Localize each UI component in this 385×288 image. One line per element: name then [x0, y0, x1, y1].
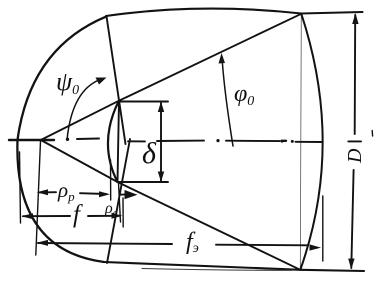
- axis dot 3: [281, 140, 284, 143]
- bottom aperture ray line: [104, 262, 364, 271]
- bottom line ghost stroke: [142, 269, 292, 271]
- feed extension line: [36, 141, 41, 255]
- svg-text:δ: δ: [142, 137, 157, 170]
- vertex extension line: [20, 152, 21, 223]
- f_e right arrowhead: [310, 244, 322, 250]
- f left arrowhead: [22, 213, 34, 219]
- top aperture ray line: [106, 9, 363, 16]
- svg-text:ρc: ρc: [104, 200, 118, 219]
- d dimension top extension: [120, 101, 169, 103]
- ray direction big arrowhead: [121, 194, 129, 196]
- focus extension line: [122, 198, 124, 227]
- d dimension arrow line: [160, 103, 162, 181]
- f right arrowhead: [112, 213, 123, 219]
- phi0 angle arc: [222, 57, 233, 146]
- psi0 angle arc: [67, 79, 102, 140]
- svg-text:fэ: fэ: [186, 229, 199, 256]
- svg-text:ψ0: ψ0: [56, 67, 79, 98]
- f_e dimension line: [38, 243, 172, 244]
- equivalent parabola chord: [300, 14, 301, 270]
- rho_p left arrowhead: [37, 189, 48, 195]
- subreflector chord: [118, 101, 120, 183]
- axis dot 4: [291, 140, 294, 143]
- ray dish top rim to real focus: [107, 16, 126, 144]
- D top arrowhead: [352, 13, 358, 24]
- d dimension bottom extension: [118, 181, 169, 183]
- f_e left arrowhead: [36, 240, 48, 246]
- svg-text:D: D: [344, 148, 366, 164]
- axis dot 2: [216, 139, 219, 142]
- ray dish bottom rim to real focus: [107, 139, 130, 263]
- ray feed to subreflector top edge to equivalent parabola edge: [41, 14, 302, 140]
- f dimension line: [23, 215, 70, 217]
- rho_p right arrowhead: [99, 191, 110, 197]
- psi0 arrowhead: [96, 78, 107, 85]
- rho_p dimension line: [39, 191, 56, 193]
- axis dot 1: [66, 138, 69, 141]
- equivalent parabola vertex extension line: [322, 196, 324, 261]
- subreflector hyperbola arc: [108, 101, 119, 183]
- d arrowhead up: [158, 102, 164, 113]
- d arrowhead down: [158, 172, 164, 183]
- svg-text:f: f: [73, 201, 83, 228]
- subreflector apex extension line: [110, 160, 112, 200]
- D dimension line: [354, 15, 357, 134]
- D bottom arrowhead: [348, 259, 354, 270]
- phi0 arrowhead: [219, 53, 226, 64]
- ray feed to subreflector bottom edge to equivalent parabola bottom edge: [41, 140, 301, 270]
- main parabola reflector: [17, 16, 106, 262]
- equivalent parabola arc: [300, 14, 322, 270]
- subreflector chord extension line: [119, 183, 121, 222]
- axis centerline dashes: [9, 139, 54, 141]
- svg-text:φ0: φ0: [234, 81, 254, 109]
